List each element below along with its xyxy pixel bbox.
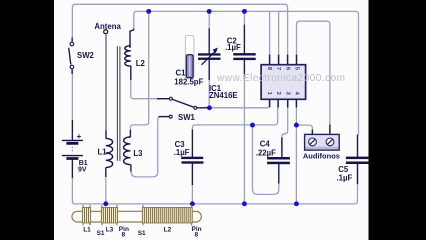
svg-text:SW2: SW2	[77, 51, 95, 60]
Audifonos screw left	[309, 138, 317, 146]
wire: L1 bottom dark stub	[105, 167, 107, 177]
junction node dots	[103, 9, 298, 206]
node: bus-C2	[242, 9, 247, 14]
rod winding L1	[82, 205, 91, 226]
node: pin4-Audifonos	[294, 123, 299, 128]
svg-text:L3: L3	[133, 149, 143, 158]
svg-text:L1: L1	[98, 148, 108, 157]
wire: L2 top dark stub	[130, 29, 134, 48]
wire: C1 dark stubs	[208, 28, 210, 80]
svg-text:8: 8	[195, 232, 199, 239]
node: bus-L1	[103, 201, 108, 206]
svg-text:2: 2	[275, 92, 281, 95]
transformer core	[117, 46, 120, 161]
svg-text:.1µF: .1µF	[174, 148, 190, 157]
capacitor C1 plates	[198, 53, 221, 55]
wire: IC pin4 bottom to bus	[295, 108, 297, 204]
wire: C3 top to IC pin2 horizontal	[192, 108, 277, 131]
wire: C1 column top	[208, 11, 210, 29]
svg-text:SW1: SW1	[178, 113, 196, 122]
inductor L1	[106, 138, 113, 167]
wire: C2 dark stubs	[243, 25, 245, 79]
svg-text:.1µF: .1µF	[337, 174, 353, 183]
capacitor C1 trimmer handle	[186, 55, 193, 78]
svg-text:L3: L3	[106, 227, 114, 234]
svg-text:www.Electronica2000.com: www.Electronica2000.com	[216, 73, 345, 84]
wire: antenna lead down to L1	[105, 35, 107, 132]
svg-text:.22µF: .22µF	[256, 148, 276, 157]
rod winding L3	[101, 205, 118, 226]
svg-text:S1: S1	[97, 230, 105, 237]
battery B1	[62, 140, 83, 158]
node: C4 loop	[250, 123, 255, 128]
black side bars	[0, 0, 54, 240]
svg-text:Antena: Antena	[94, 22, 121, 31]
capacitor C3 plates	[181, 157, 203, 159]
svg-text:9V: 9V	[78, 167, 87, 174]
wire: C5 dark lead upper	[357, 135, 359, 157]
inductor L2	[125, 46, 131, 66]
wire: C4 dark stubs	[279, 138, 282, 184]
wire: L3 bottom to SW1 lower throw	[131, 117, 169, 177]
wire: L3 bottom dark stub	[130, 164, 132, 171]
wire: IC pin4 top to Audifonos right terminal	[297, 21, 330, 134]
svg-text:C1: C1	[176, 68, 187, 77]
wire: bottom ground bus	[75, 169, 357, 204]
wire: C4 bottom loop to node	[253, 125, 279, 194]
svg-text:L2: L2	[136, 59, 146, 68]
svg-text:7: 7	[275, 67, 281, 70]
node: bus-C3	[190, 201, 195, 206]
capacitor C2 plates	[233, 53, 255, 55]
wire: node to Audifonos left terminal	[296, 125, 312, 134]
wire: SW2 dark stubs	[71, 38, 73, 179]
svg-text:S1: S1	[138, 230, 146, 237]
IC U1 ZN416E body	[261, 65, 306, 100]
wire: outer frame top-left (battery+ rail to IC pin3)	[72, 4, 287, 56]
node: bus-C1	[207, 9, 212, 14]
Audifonos terminal block	[305, 134, 340, 150]
node: bus-C2 bottom	[242, 201, 247, 206]
wire: IC top pin stubs	[270, 55, 297, 65]
wire: IC pin3 to C4 top	[282, 108, 288, 152]
antenna terminal	[104, 30, 108, 34]
svg-text:+: +	[77, 132, 82, 141]
white schematic background	[54, 0, 369, 240]
svg-text:Audifonos: Audifonos	[303, 151, 340, 160]
wire: top bus drop to IC pin2	[278, 11, 280, 56]
Audifonos screw right	[326, 138, 334, 146]
capacitor C1 trimmer slot	[185, 36, 194, 79]
svg-text:C4: C4	[260, 140, 271, 149]
wire: C2 column bottom to bus	[243, 78, 245, 204]
ferrite rod	[72, 211, 201, 222]
node: bus-pin4	[294, 201, 299, 206]
node: SW1-C1	[207, 105, 212, 110]
switch SW1	[157, 97, 197, 118]
wire: battery to bottom bus corner	[72, 159, 75, 204]
switch SW2	[69, 42, 74, 69]
wire: C1 column bottom to SW1 node	[208, 79, 210, 108]
wire: C5 dark lead lower	[357, 164, 359, 184]
wire: C3 dark stubs	[191, 130, 193, 186]
wire: left rail SW2 to battery	[71, 69, 73, 140]
wire: L1 top dark stub	[105, 131, 107, 139]
svg-text:182.5pF: 182.5pF	[174, 78, 203, 87]
svg-text:L1: L1	[83, 227, 91, 234]
capacitor C4 plates	[267, 157, 290, 160]
wire: top tuned bus from L2 top to C5 top	[134, 11, 359, 135]
wire: L2 bottom to SW1 upper throw	[131, 79, 169, 99]
wire: C3 bottom to bus	[191, 184, 193, 204]
capacitor C1 arrow	[202, 51, 216, 65]
wire: top bus drop to IC pin1	[269, 11, 271, 56]
svg-text:L2: L2	[164, 227, 172, 234]
wire: Audifonos terminal dark stubs	[312, 125, 330, 135]
wire: L3 top to top bus junction	[130, 11, 148, 130]
wire: L3 top dark stub	[129, 130, 131, 137]
svg-text:.1µF: .1µF	[225, 43, 241, 52]
wire: L2 bottom dark stub	[130, 66, 132, 80]
wire: L1 bottom to bus	[105, 172, 107, 204]
svg-text:ZN416E: ZN416E	[209, 91, 238, 100]
rod winding L2	[142, 205, 193, 226]
wire: C2 column top	[243, 11, 245, 25]
capacitor C5 plates	[346, 157, 369, 160]
wire: SW1 common to IC pin1	[209, 100, 269, 108]
inductor L3	[124, 137, 131, 165]
svg-text:8: 8	[122, 231, 126, 238]
wire: IC bottom pin stubs	[270, 99, 297, 107]
node: bus-L3 top	[146, 9, 151, 14]
wire: SW1 common dark stub	[197, 107, 210, 109]
